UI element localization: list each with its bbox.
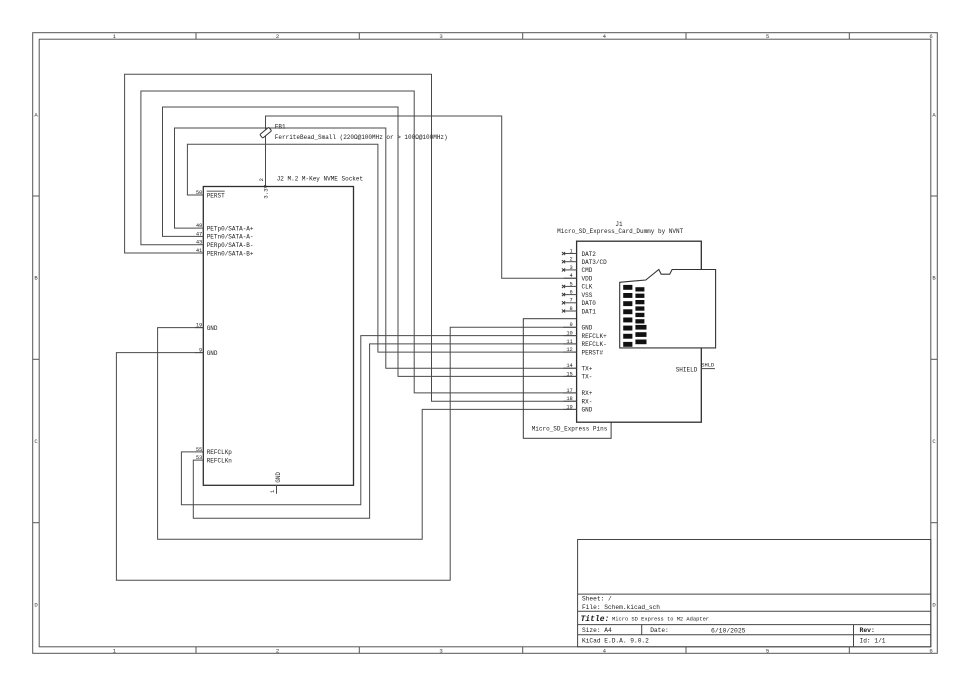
svg-text:Size: A4: Size: A4 bbox=[582, 627, 612, 634]
svg-text:41: 41 bbox=[196, 248, 202, 254]
svg-text:PERST: PERST bbox=[207, 192, 225, 199]
svg-text:Id: 1/1: Id: 1/1 bbox=[860, 638, 886, 645]
svg-text:5: 5 bbox=[766, 648, 769, 655]
J2 pin 2 3.3V (top) bbox=[259, 178, 269, 199]
svg-text:Micro_SD_Express Pins: Micro_SD_Express Pins bbox=[532, 426, 608, 433]
J1 pin 5 CLK bbox=[562, 281, 593, 290]
J1 pin 6 VSS bbox=[562, 290, 593, 299]
J1 pin 12 PERST# bbox=[563, 347, 603, 356]
J1 pin 4 VDD bbox=[564, 273, 593, 282]
wire PETp0/SATA-A+ to TX+ bbox=[175, 128, 577, 368]
svg-text:CLK: CLK bbox=[582, 284, 593, 291]
svg-text:6: 6 bbox=[929, 33, 932, 40]
svg-text:RX-: RX- bbox=[582, 399, 593, 406]
wire GND pin19 to GND pin19 bbox=[158, 328, 577, 540]
svg-text:3.3V: 3.3V bbox=[263, 184, 270, 198]
svg-text:PETp0/SATA-A+: PETp0/SATA-A+ bbox=[207, 225, 254, 232]
svg-text:DAT2: DAT2 bbox=[582, 251, 597, 258]
svg-text:1: 1 bbox=[270, 490, 276, 493]
svg-text:2: 2 bbox=[276, 33, 279, 40]
svg-text:4: 4 bbox=[570, 273, 573, 279]
svg-text:2: 2 bbox=[259, 178, 265, 181]
micro SD card symbol bbox=[620, 270, 716, 348]
svg-text:19: 19 bbox=[196, 323, 202, 329]
svg-text:PERp0/SATA-B-: PERp0/SATA-B- bbox=[207, 242, 254, 249]
wire GND pin9 to GND pin9 bbox=[116, 327, 576, 580]
svg-text:REFCLKp: REFCLKp bbox=[207, 449, 233, 456]
svg-text:53: 53 bbox=[196, 455, 202, 461]
J1 pin 3 CMD bbox=[562, 265, 593, 274]
J1 pin 1 DAT2 bbox=[562, 248, 596, 257]
J1 pin 7 DAT0 bbox=[562, 298, 596, 307]
svg-text:11: 11 bbox=[566, 339, 572, 345]
svg-text:6: 6 bbox=[929, 648, 932, 655]
svg-text:FerriteBead_Small (220Ω@100MHz: FerriteBead_Small (220Ω@100MHz or > 100Ω… bbox=[275, 134, 448, 141]
svg-text:2: 2 bbox=[276, 648, 279, 655]
svg-text:CMD: CMD bbox=[582, 267, 593, 274]
J1 pin 15 TX- bbox=[563, 371, 592, 380]
svg-text:SHLD: SHLD bbox=[701, 363, 714, 369]
svg-text:TX+: TX+ bbox=[582, 366, 593, 373]
svg-text:GND: GND bbox=[207, 325, 218, 332]
svg-text:15: 15 bbox=[566, 371, 572, 377]
J1 pin 17 RX+ bbox=[563, 388, 593, 397]
svg-text:VSS: VSS bbox=[582, 292, 593, 299]
svg-text:17: 17 bbox=[566, 388, 572, 394]
svg-text:6/10/2025: 6/10/2025 bbox=[711, 627, 746, 634]
J2 pin 41 PERn0/SATA-B+ bbox=[195, 248, 254, 257]
J2 pin 50 PERST bbox=[195, 190, 225, 199]
J1 pin 2 DAT3/CD bbox=[562, 257, 607, 266]
svg-text:RX+: RX+ bbox=[582, 390, 593, 397]
svg-text:REFCLK-: REFCLK- bbox=[582, 341, 607, 348]
svg-text:Rev:: Rev: bbox=[860, 627, 875, 634]
annotation box Micro_SD_Express Pins bbox=[523, 319, 611, 439]
svg-text:REFCLK+: REFCLK+ bbox=[582, 333, 608, 340]
wire REFCLKp to REFCLK+ bbox=[181, 336, 576, 505]
connector J1 Micro_SD_Express_Card_Dummy bbox=[557, 221, 701, 422]
svg-text:PERn0/SATA-B+: PERn0/SATA-B+ bbox=[207, 250, 254, 257]
svg-text:50: 50 bbox=[196, 190, 202, 196]
svg-text:8: 8 bbox=[570, 306, 573, 312]
svg-text:12: 12 bbox=[566, 347, 572, 353]
svg-text:PETn0/SATA-A-: PETn0/SATA-A- bbox=[207, 234, 254, 241]
svg-text:Sheet: /: Sheet: / bbox=[582, 595, 612, 602]
svg-text:18: 18 bbox=[566, 396, 572, 402]
svg-text:REFCLKn: REFCLKn bbox=[207, 457, 233, 464]
J2 pin 49 PETp0/SATA-A+ bbox=[195, 223, 254, 232]
J2 pin 53 REFCLKn bbox=[195, 455, 232, 464]
svg-text:19: 19 bbox=[566, 404, 572, 410]
J1 pin 9 GND bbox=[563, 322, 593, 331]
svg-text:GND: GND bbox=[207, 350, 218, 357]
svg-text:VDD: VDD bbox=[582, 276, 593, 283]
J2 pin 19 GND bbox=[195, 323, 218, 332]
title block bbox=[578, 540, 931, 647]
svg-text:File: Schem.kicad_sch: File: Schem.kicad_sch bbox=[582, 604, 660, 611]
J1 pin 11 REFCLK- bbox=[563, 339, 607, 348]
svg-text:DAT1: DAT1 bbox=[582, 308, 597, 315]
wire PERST to PERST# bbox=[187, 144, 576, 352]
svg-text:FB1: FB1 bbox=[275, 124, 286, 131]
svg-text:SHIELD: SHIELD bbox=[676, 366, 698, 373]
svg-text:J1: J1 bbox=[615, 221, 623, 228]
svg-text:Micro SD Express to M2 Adapter: Micro SD Express to M2 Adapter bbox=[612, 616, 709, 622]
wire 3.3V through FB1 to VDD bbox=[266, 116, 577, 278]
J2 pin 55 REFCLKp bbox=[195, 447, 232, 456]
svg-text:KiCad E.D.A. 9.0.2: KiCad E.D.A. 9.0.2 bbox=[582, 638, 649, 645]
svg-text:5: 5 bbox=[570, 281, 573, 287]
svg-text:TX-: TX- bbox=[582, 374, 593, 381]
J1 pin 14 TX+ bbox=[563, 363, 593, 372]
J2 pin 43 PERp0/SATA-B- bbox=[195, 240, 254, 249]
svg-text:47: 47 bbox=[196, 231, 202, 237]
svg-text:55: 55 bbox=[196, 447, 202, 453]
svg-text:DAT0: DAT0 bbox=[582, 300, 597, 307]
wire PETn0/SATA-A- to TX- bbox=[163, 107, 577, 376]
wire REFCLKn to REFCLK- bbox=[193, 344, 576, 518]
svg-text:3: 3 bbox=[439, 33, 442, 40]
svg-text:9: 9 bbox=[570, 322, 573, 328]
J1 pin 19 GND bbox=[563, 404, 593, 413]
J1 pin 8 DAT1 bbox=[562, 306, 596, 315]
svg-text:3: 3 bbox=[570, 265, 573, 271]
svg-text:J2 M.2 M-Key NVME Socket: J2 M.2 M-Key NVME Socket bbox=[277, 176, 363, 183]
svg-text:7: 7 bbox=[570, 298, 573, 304]
J2 pin 9 GND bbox=[195, 348, 218, 357]
svg-text:Date:: Date: bbox=[650, 627, 669, 634]
svg-text:GND: GND bbox=[582, 407, 593, 414]
J2 pin 1 GND (bottom) bbox=[270, 472, 282, 494]
svg-text:2: 2 bbox=[570, 257, 573, 263]
J1 pin SHLD SHIELD bbox=[676, 363, 715, 374]
svg-text:Micro_SD_Express_Card_Dummy by: Micro_SD_Express_Card_Dummy by NVNT bbox=[557, 228, 683, 235]
J2 pin 47 PETn0/SATA-A- bbox=[195, 231, 254, 240]
svg-text:Title:: Title: bbox=[581, 615, 610, 624]
svg-text:49: 49 bbox=[196, 223, 202, 229]
wire PERp0/SATA-B- to RX+ bbox=[141, 91, 577, 393]
svg-text:3: 3 bbox=[439, 648, 442, 655]
svg-text:9: 9 bbox=[199, 348, 202, 354]
J1 pin 10 REFCLK+ bbox=[563, 331, 607, 340]
connector J2 M.2 M-Key NVME Socket bbox=[203, 187, 353, 486]
J1 pin 18 RX- bbox=[563, 396, 592, 405]
svg-text:10: 10 bbox=[566, 331, 572, 337]
svg-text:GND: GND bbox=[582, 325, 593, 332]
svg-text:14: 14 bbox=[566, 363, 572, 369]
ferrite bead FB1 bbox=[260, 124, 448, 142]
svg-text:GND: GND bbox=[275, 472, 282, 483]
svg-text:PERST#: PERST# bbox=[582, 349, 604, 356]
svg-text:1: 1 bbox=[570, 248, 573, 254]
svg-text:6: 6 bbox=[570, 290, 573, 296]
svg-text:DAT3/CD: DAT3/CD bbox=[582, 259, 608, 266]
wire PERn0/SATA-B+ to RX- bbox=[125, 74, 577, 401]
svg-text:5: 5 bbox=[766, 33, 769, 40]
svg-text:43: 43 bbox=[196, 240, 202, 246]
